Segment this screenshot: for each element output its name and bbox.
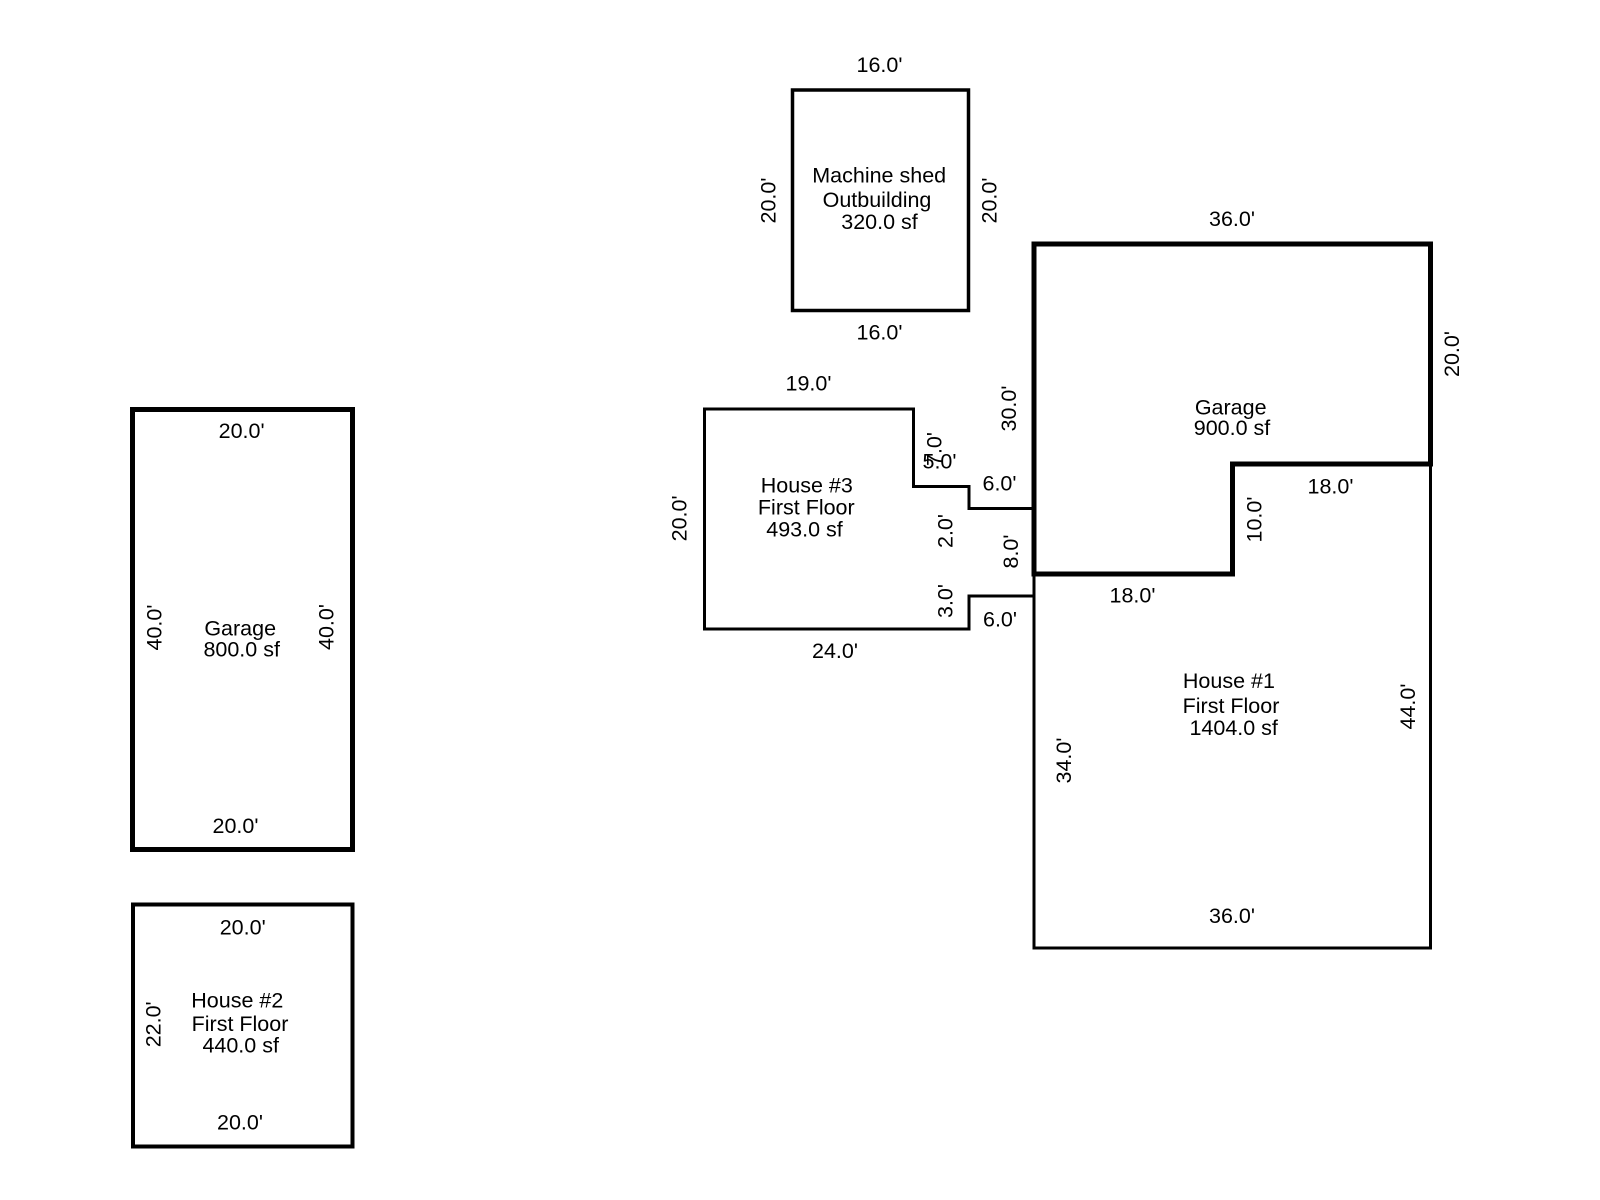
svg-text:493.0 sf: 493.0 sf: [766, 518, 843, 542]
svg-text:16.0': 16.0': [857, 321, 903, 345]
svg-text:First Floor: First Floor: [758, 496, 855, 520]
svg-text:40.0': 40.0': [315, 604, 339, 650]
svg-text:20.0': 20.0': [757, 178, 781, 224]
svg-text:5.0': 5.0': [923, 450, 957, 474]
svg-text:3.0': 3.0': [934, 584, 958, 618]
svg-text:First Floor: First Floor: [1183, 694, 1280, 718]
svg-text:24.0': 24.0': [812, 639, 858, 663]
svg-text:30.0': 30.0': [997, 386, 1021, 432]
svg-text:20.0': 20.0': [219, 419, 265, 443]
svg-text:10.0': 10.0': [1243, 497, 1267, 543]
svg-text:6.0': 6.0': [983, 608, 1017, 632]
svg-text:36.0': 36.0': [1209, 207, 1255, 231]
svg-text:1404.0 sf: 1404.0 sf: [1189, 716, 1277, 740]
svg-text:8.0': 8.0': [999, 535, 1023, 569]
svg-text:22.0': 22.0': [142, 1001, 166, 1047]
svg-text:20.0': 20.0': [978, 178, 1002, 224]
svg-text:16.0': 16.0': [857, 53, 903, 77]
svg-text:20.0': 20.0': [217, 1111, 263, 1135]
svg-text:Machine shed: Machine shed: [812, 164, 946, 188]
svg-text:440.0 sf: 440.0 sf: [202, 1034, 279, 1058]
svg-text:6.0': 6.0': [983, 472, 1017, 496]
svg-text:First Floor: First Floor: [192, 1012, 289, 1036]
svg-text:House #1: House #1: [1183, 669, 1275, 693]
svg-text:19.0': 19.0': [786, 372, 832, 396]
svg-text:20.0': 20.0': [220, 916, 266, 940]
svg-text:18.0': 18.0': [1110, 584, 1156, 608]
house2 outline: [133, 905, 353, 1147]
svg-text:18.0': 18.0': [1308, 475, 1354, 499]
garage 900 outline: [1034, 244, 1431, 574]
svg-text:20.0': 20.0': [1440, 331, 1464, 377]
svg-text:40.0': 40.0': [143, 605, 167, 651]
svg-text:44.0': 44.0': [1396, 684, 1420, 730]
svg-text:320.0 sf: 320.0 sf: [841, 210, 918, 234]
svg-text:House #2: House #2: [191, 989, 283, 1013]
svg-text:Outbuilding: Outbuilding: [823, 188, 932, 212]
house1 outline: [1034, 464, 1431, 948]
svg-text:36.0': 36.0': [1209, 904, 1255, 928]
svg-text:800.0 sf: 800.0 sf: [203, 638, 280, 662]
svg-text:34.0': 34.0': [1052, 738, 1076, 784]
svg-text:20.0': 20.0': [213, 814, 259, 838]
svg-text:House #3: House #3: [761, 474, 853, 498]
svg-text:2.0': 2.0': [934, 514, 958, 548]
house3 outline: [705, 409, 1035, 629]
garage 800 outline: [133, 410, 353, 850]
svg-text:900.0 sf: 900.0 sf: [1194, 416, 1271, 440]
machine shed outline: [793, 90, 969, 311]
svg-text:20.0': 20.0': [668, 495, 692, 541]
